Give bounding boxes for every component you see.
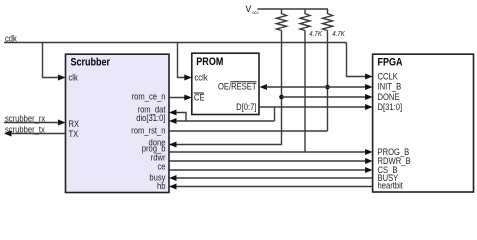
svg-text:cco: cco [253, 10, 259, 16]
junction R3/INIT_B [325, 85, 330, 90]
svg-text:ce: ce [157, 161, 165, 172]
svg-text:TX: TX [69, 128, 79, 139]
wire scrubber_tx out of TX [4, 131, 66, 137]
svg-text:rom_rst_n: rom_rst_n [131, 125, 166, 136]
svg-text:D[31:0]: D[31:0] [378, 101, 403, 112]
svg-text:D[0:7]: D[0:7] [236, 101, 256, 112]
resistor R2 4.7K pull-up [300, 9, 322, 38]
svg-text:dio[31:0]: dio[31:0] [136, 112, 165, 123]
wire rom_rst_n row to R3 vertical [169, 130, 328, 132]
svg-text:4.7K: 4.7K [332, 30, 345, 38]
svg-text:heartbit: heartbit [378, 180, 404, 191]
wire rom_ce_n to PROM CE [169, 95, 192, 101]
wire R2 lead down to PROG_B row [304, 31, 306, 153]
wire DONE row from R1 junction to FPGA [282, 94, 373, 100]
svg-text:Scrubber: Scrubber [71, 57, 111, 69]
svg-text:V: V [246, 4, 252, 15]
wire dio row to data-bus branch [169, 118, 275, 124]
wire cdk horizontal rail [4, 42, 347, 44]
block U1 Scrubber [66, 54, 170, 192]
wire FPGA heartbit to hb row [169, 184, 373, 190]
power Vcc symbol [246, 4, 259, 16]
wire rom_dat row with jog down [169, 110, 186, 122]
block U3 FPGA [373, 54, 474, 192]
wire done row arrowhead into Scrubber [169, 142, 177, 148]
resistor R3 4.7K pull-up [323, 9, 346, 38]
svg-text:rom_ce_n: rom_ce_n [132, 91, 166, 102]
svg-text:FPGA: FPGA [378, 57, 403, 69]
wire FPGA BUSY to busy row [169, 175, 373, 181]
resistor R1 4.7K pull-up [277, 9, 287, 31]
svg-text:4.7K: 4.7K [309, 30, 322, 38]
svg-text:hb: hb [157, 180, 166, 191]
wire R1 lead down joining done row [169, 31, 282, 145]
wire data bus branch down to dio row [274, 107, 276, 121]
junction R1/DONE [279, 95, 284, 100]
svg-text:cclk: cclk [195, 72, 209, 83]
wire cdk drop to PROM cclk [178, 43, 192, 81]
wire OE/RESET to INIT_B row [260, 84, 373, 90]
wire Vcc rail [258, 8, 329, 10]
pin CE (PROM, active low) [194, 92, 205, 103]
wire cdk drop to FPGA CCLK [347, 43, 373, 80]
wire scrubber_rx into RX [4, 120, 66, 126]
wire ce to FPGA CS_B [169, 167, 373, 173]
svg-text:clk: clk [69, 72, 79, 83]
wire R3 lead down to rom_rst_n row [327, 31, 329, 132]
svg-text:PROM: PROM [196, 56, 223, 68]
wire cdk drop to Scrubber clk [43, 43, 66, 81]
wire D[0:7] data bus PROM to FPGA D[31:0] [259, 104, 373, 110]
wire prog_b to FPGA PROG_B [169, 149, 373, 155]
svg-text:INIT_B: INIT_B [378, 81, 402, 92]
wire rdwr to FPGA RDWR_B [169, 158, 373, 164]
block U2 PROM [192, 53, 259, 114]
pin OE/RESET (PROM, RESET active low) [218, 81, 257, 92]
